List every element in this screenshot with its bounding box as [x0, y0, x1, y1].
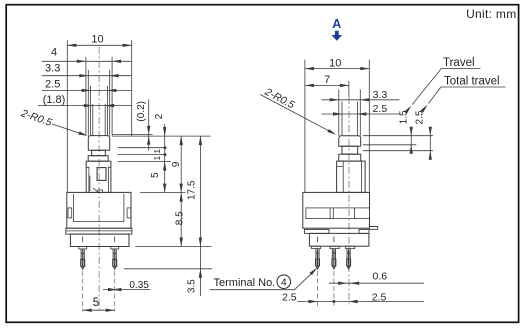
right view: step collar — [339, 154, 361, 161]
svg-text:2.5: 2.5 — [373, 103, 388, 115]
left view: pin axis extension lines — [83, 271, 115, 312]
left view: plunger shaft lines 3.3mm — [88, 70, 109, 136]
right view: center line — [348, 97, 350, 306]
arrowhead leader 2-R0.5 (right view) — [327, 129, 337, 136]
arrowheads dimension 2.5 — [82, 89, 91, 92]
svg-text:7: 7 — [324, 74, 330, 86]
left view: body inner face — [74, 194, 124, 222]
arrowhead Travel leader — [404, 105, 412, 114]
right view: Terminal label underline and leader — [210, 269, 316, 290]
arrowheads dimension 3.3 — [79, 74, 88, 77]
right view: extension lines width 10 — [305, 60, 369, 193]
left view: main body — [67, 192, 131, 228]
arrowheads dimension 3.3 (right view) — [330, 98, 339, 101]
arrowheads total travel 2.5 — [429, 127, 432, 136]
right view: plunger flange cap — [339, 136, 361, 147]
right view: Total travel label underline and leader — [428, 87, 505, 104]
right view: pin center ticks — [318, 237, 334, 243]
right view: terminal pin 3 — [347, 249, 350, 270]
arrowheads dimension 7 — [305, 84, 314, 87]
left view: chained dimension line 2/1/1/5 — [164, 124, 166, 193]
right view: shaft inner lines 2.5 — [342, 102, 358, 136]
left view: housing inner contour — [86, 167, 111, 192]
svg-text:1: 1 — [152, 155, 162, 160]
right view: travel reference lines — [363, 136, 433, 151]
left view: dimension line 3.3 — [42, 75, 132, 77]
svg-text:1.5: 1.5 — [399, 110, 410, 124]
left view: neck below flange — [92, 150, 106, 155]
left view: dimension line 17.5 and 3.5 — [199, 136, 201, 296]
svg-text:17.5: 17.5 — [186, 180, 197, 200]
left view: pin center ticks — [83, 237, 115, 243]
svg-text:3.3: 3.3 — [45, 63, 60, 75]
right view: flange tabs — [305, 229, 330, 233]
left view: (0.2) dimension leader — [148, 100, 150, 151]
right view: body middle band — [306, 208, 370, 219]
right view: lower body — [309, 233, 369, 246]
left view: side latch right — [127, 208, 131, 218]
svg-text:2.5: 2.5 — [415, 110, 426, 124]
right view: dimension line 0.6 — [329, 282, 424, 284]
left view: upper housing — [86, 161, 111, 192]
svg-text:Terminal No.: Terminal No. — [214, 277, 276, 289]
svg-text:8.5: 8.5 — [175, 211, 186, 225]
right view: dimension line 2.5 2.5 — [298, 301, 425, 303]
right view: dimension line 3.3 — [322, 99, 400, 101]
arrowheads dimension 2.5 (right view) — [333, 112, 342, 115]
svg-text:Total travel: Total travel — [444, 76, 500, 88]
svg-text:(0.2): (0.2) — [136, 101, 147, 122]
left view dimension texts — [43, 33, 150, 309]
left view: reference line 0.2 gap — [112, 133, 153, 135]
arrowhead Total travel leader — [421, 104, 429, 113]
right view dimension texts — [282, 58, 387, 304]
svg-text:(1.8): (1.8) — [43, 94, 66, 106]
svg-text:1: 1 — [152, 149, 162, 154]
left view: step collar — [88, 156, 108, 162]
right view: dimension line total travel 2.5 — [429, 127, 431, 160]
svg-text:10: 10 — [329, 58, 341, 70]
right view rotated dimension texts — [399, 110, 426, 124]
left view rotated dimension texts — [136, 101, 198, 293]
left view: reference line flange top level — [112, 135, 211, 137]
svg-text:5: 5 — [150, 172, 161, 178]
left view: plunger shaft lines 2.5mm — [91, 86, 108, 136]
section arrow A — [332, 17, 343, 41]
right view: terminal pin 2 — [332, 249, 335, 270]
arrowheads dimension 4 — [77, 60, 86, 63]
left view: terminal pin left — [81, 249, 84, 270]
svg-text:2.5: 2.5 — [45, 79, 60, 91]
right view: stem mount inner lines — [337, 161, 362, 192]
svg-text:Unit: mm: Unit: mm — [466, 7, 516, 21]
right view: pin axis extension lines — [318, 271, 334, 306]
arrowheads dimension 2.5 2.5 bottom — [309, 300, 318, 303]
right view: dimension line 7 — [305, 84, 349, 86]
right view: bottom bumps under pins — [312, 246, 321, 248]
right view: right side tab — [370, 227, 378, 230]
left view: plunger shaft lines 1.8mm — [93, 104, 105, 136]
left view: travel reference lines — [118, 148, 171, 162]
arrowhead leader 2-R0.5 — [78, 131, 88, 137]
right view: Travel label underline and leader — [412, 68, 480, 104]
right view: terminal pin 1 — [316, 249, 319, 270]
right view: dimension line travel 1.5 — [410, 127, 412, 153]
arrowheads dimension 0.35 — [108, 288, 117, 291]
arrowheads dimension 0.6 — [338, 282, 347, 285]
right view: stem mount block — [337, 161, 366, 192]
left view: leader line 2-R0.5 — [52, 124, 86, 135]
right view: neck — [342, 146, 358, 154]
arrowheads travel 1.5 — [410, 127, 413, 136]
arrowheads dimension 5 — [83, 309, 92, 312]
left view: extension line body top — [140, 192, 186, 194]
left view: terminal pin right — [113, 249, 116, 270]
svg-text:9: 9 — [171, 161, 182, 167]
left view: dimension line 2.5 — [42, 89, 132, 91]
svg-text:10: 10 — [91, 33, 103, 45]
right view: main body — [303, 192, 370, 228]
left view: plunger shaft outer lines 4mm — [86, 57, 112, 136]
left view: mounting flange band — [66, 228, 132, 234]
left view: extension lines for width 10 — [67, 40, 131, 192]
arrowheads dimension (1.8) — [84, 104, 93, 107]
arrowheads dimension 9 / 8.5 — [180, 136, 183, 145]
right view: dimension line 10 — [305, 68, 369, 70]
svg-text:2: 2 — [154, 113, 165, 119]
left view: dimension line 0.35 — [103, 289, 151, 291]
svg-text:5: 5 — [93, 297, 99, 309]
svg-text:0.35: 0.35 — [129, 280, 149, 291]
arrowhead (0.2) — [147, 126, 150, 134]
left view: plunger flange cap — [88, 136, 109, 151]
left view: housing inner leg — [90, 176, 103, 193]
svg-text:A: A — [332, 17, 341, 31]
left view: dimension line 10 — [67, 44, 131, 46]
right view: extension line 7 (plunger axis) — [348, 81, 350, 97]
left view: dimension line 4 — [42, 60, 132, 62]
right view: leader line 2-R0.5 — [260, 95, 334, 134]
left view: center line — [98, 47, 100, 312]
svg-text:3.3: 3.3 — [373, 89, 388, 101]
left view: dimension line 9 and 8.5 — [180, 136, 182, 246]
right view: shaft outer lines 3.3 — [339, 90, 361, 136]
left view: extension line body bottom — [135, 246, 211, 248]
right view: dimension line 2.5 — [322, 113, 400, 115]
svg-text:0.6: 0.6 — [372, 271, 387, 283]
svg-text:2.5: 2.5 — [372, 291, 387, 303]
svg-text:4: 4 — [281, 277, 287, 289]
arrowheads chain 2/1/1/5 — [163, 127, 166, 136]
svg-text:4: 4 — [51, 47, 57, 59]
left view: side latch left — [68, 208, 72, 218]
left view: dimension line 5 (pin spacing) — [83, 309, 115, 311]
arrowheads dimension 10 — [67, 44, 76, 47]
left view: dimension line (1.8) — [38, 105, 131, 107]
left view: extension line pin bottom — [124, 268, 212, 270]
svg-text:Travel: Travel — [443, 57, 475, 69]
svg-text:3.5: 3.5 — [186, 279, 197, 293]
arrowheads dimension 10 (right view) — [305, 67, 314, 70]
arrowheads dimension 17.5 / 3.5 — [199, 136, 202, 145]
left view: lower body — [70, 234, 129, 246]
left view: housing window — [97, 168, 106, 181]
left view: bottom bumps under pins — [79, 247, 87, 249]
arrowhead Terminal leader — [310, 267, 319, 276]
svg-text:2.5: 2.5 — [282, 291, 297, 303]
